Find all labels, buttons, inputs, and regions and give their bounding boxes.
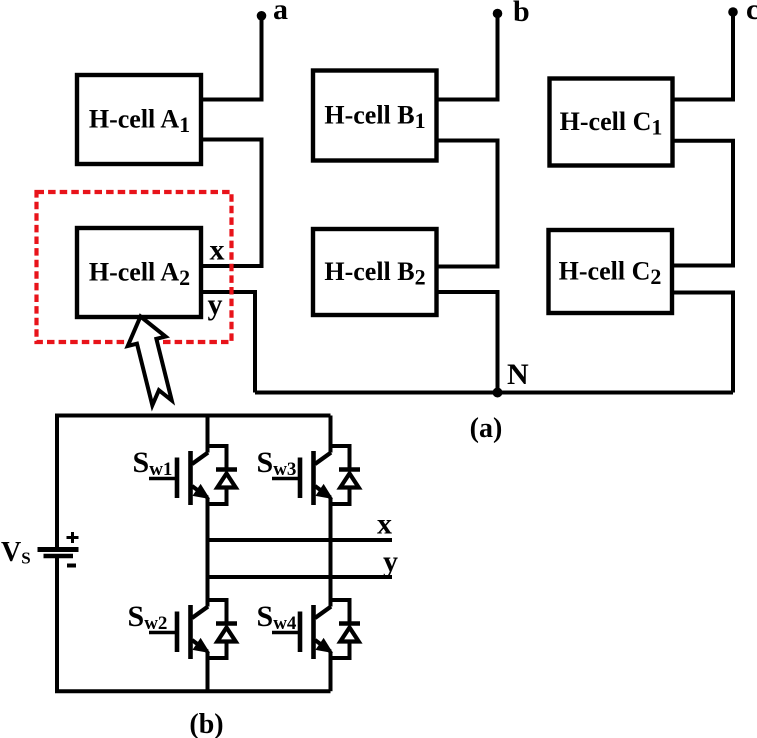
H-cell A2 box: [77, 228, 201, 317]
battery + polarity mark: [67, 532, 79, 543]
transistor Sw4 (IGBT with freewheel diode): [272, 600, 360, 659]
wire top rail: [57, 416, 331, 550]
wire output x line: [208, 538, 393, 542]
neutral bus N wire: [255, 391, 733, 395]
H-cell C2 box: [549, 230, 673, 313]
svg-text:H-cell B1: H-cell B1: [324, 101, 425, 134]
wire C1 bottom to C2 x (series interconnect): [673, 141, 734, 266]
H-cell B2 box: [313, 229, 437, 315]
svg-text:Sw3: Sw3: [257, 446, 297, 480]
svg-text:H-cell C1: H-cell C1: [560, 107, 663, 140]
wire A2 y down to N bus: [201, 292, 255, 393]
svg-text:a: a: [273, 0, 288, 26]
wire B1 bottom to B2 x (series interconnect): [437, 141, 498, 267]
svg-text:b: b: [513, 0, 530, 28]
wire A1 top to terminal a: [201, 16, 262, 100]
svg-text:x: x: [210, 234, 225, 267]
wire output y line: [208, 575, 393, 579]
red dashed highlight box around H-cell A2: [37, 192, 232, 342]
svg-text:x: x: [377, 508, 392, 541]
svg-text:Sw2: Sw2: [128, 600, 168, 634]
svg-text:H-cell A2: H-cell A2: [89, 258, 190, 291]
battery Vs short plate: [44, 554, 74, 559]
svg-text:y: y: [383, 545, 398, 578]
transistor Sw2 (IGBT with freewheel diode): [149, 600, 237, 659]
battery - polarity mark: [67, 564, 76, 568]
wire C1 top to terminal c: [673, 12, 734, 100]
H-cell C1 box: [550, 79, 673, 166]
wire C2 y down to N bus: [673, 293, 734, 393]
svg-text:Sw4: Sw4: [257, 600, 297, 634]
svg-text:H-cell A1: H-cell A1: [89, 105, 190, 138]
wire A1 bottom to A2 x (series interconnect): [201, 140, 262, 267]
block arrow from (b) cell to H-cell A2: [122, 312, 181, 408]
wire B1 top to terminal b: [437, 14, 498, 100]
svg-text:(b): (b): [189, 709, 223, 738]
wire bottom rail: [57, 556, 331, 692]
svg-text:Sw1: Sw1: [133, 446, 173, 480]
wire B2 y down to N bus: [437, 292, 498, 393]
H-cell A1 box: [77, 75, 201, 164]
battery Vs long plate: [38, 547, 79, 552]
transistor Sw1 (IGBT with freewheel diode): [149, 446, 237, 505]
wire right leg segments: [329, 416, 333, 453]
node b terminal dot: [493, 9, 503, 19]
node c terminal dot: [728, 7, 738, 17]
wire left leg segments: [206, 416, 210, 453]
H-cell B1 box: [313, 71, 437, 161]
svg-text:c: c: [746, 0, 757, 26]
svg-text:VS: VS: [1, 537, 31, 568]
svg-text:(a): (a): [470, 413, 503, 444]
node N junction dot: [493, 388, 503, 398]
svg-text:H-cell C2: H-cell C2: [559, 257, 662, 290]
svg-text:N: N: [507, 358, 529, 391]
node a terminal dot: [257, 11, 267, 21]
svg-text:H-cell B2: H-cell B2: [324, 257, 425, 290]
transistor Sw3 (IGBT with freewheel diode): [272, 446, 360, 505]
